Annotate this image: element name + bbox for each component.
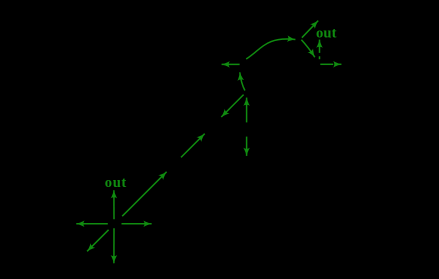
node C: left arrow [222,63,240,65]
node A star: right arrow [122,223,152,225]
vertex P: curved arrow down-right into node D [301,40,314,57]
svg-text:out: out [316,26,337,42]
wire: diagonal arrow segment 1 from node A [122,172,166,216]
node D: dashed horizontal arrow segment [320,63,333,65]
node B: vertical arrow pointing down [246,137,248,156]
wire: arc from node C to vertex P [246,39,295,59]
node D: dashed horizontal arrow head segment [335,63,342,65]
svg-text:out: out [105,175,127,191]
wire: diagonal back-arrow from node B [221,95,243,117]
wire: diagonal arrow segment 2 [181,134,205,158]
node A star: down arrow [113,228,115,263]
node A star: up arrow [113,190,115,219]
node D: dashed vertical arrow segment [319,56,321,59]
node A star: down-left arrow [87,230,109,252]
node D: dashed vertical arrow head segment [319,40,321,53]
node B: curved arrow up toward node C [240,72,245,90]
vertex P: out arrow up-right [302,21,318,38]
node B: vertical arrow pointing up [246,98,248,123]
node A star: left arrow [76,223,108,225]
